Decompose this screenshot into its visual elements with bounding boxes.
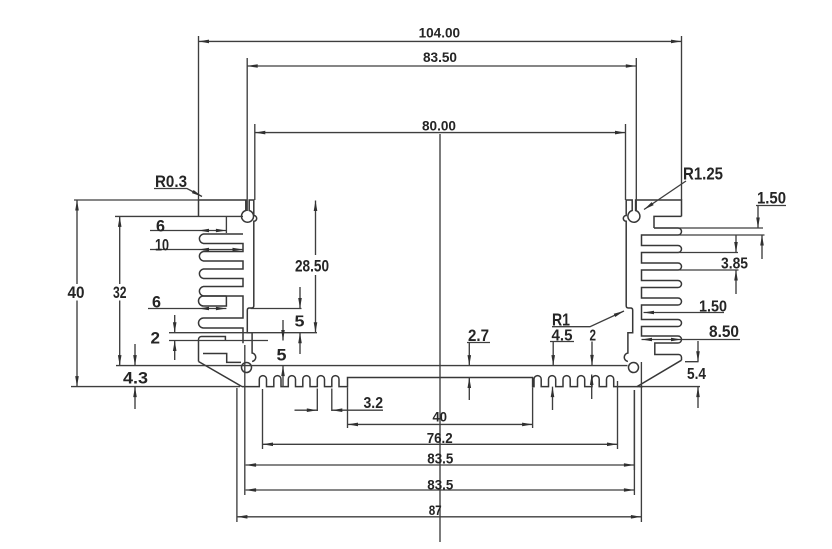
svg-text:8.50: 8.50 — [709, 323, 739, 341]
svg-text:76.2: 76.2 — [427, 430, 453, 447]
dim 83.50 — [247, 49, 636, 211]
svg-text:10: 10 — [155, 236, 169, 255]
dim 3.85 — [678, 235, 748, 294]
svg-text:6: 6 — [152, 294, 161, 312]
svg-text:R1.25: R1.25 — [683, 164, 723, 184]
svg-text:40: 40 — [433, 410, 448, 425]
dim 1.50 top right — [654, 190, 786, 260]
dim 32 left — [113, 216, 127, 365]
dim 6 upper left — [150, 216, 226, 235]
right top notch — [654, 216, 682, 228]
left bottom chamfer — [199, 362, 243, 387]
dim 5 upper (inner wall step) — [251, 287, 305, 354]
svg-text:3.85: 3.85 — [721, 256, 748, 273]
dim 2 right — [590, 328, 597, 400]
left screw boss bottom circle — [242, 363, 252, 373]
dim 2.7 center — [467, 327, 490, 400]
svg-text:80.00: 80.00 — [422, 118, 456, 134]
svg-text:5: 5 — [277, 347, 287, 365]
label R1.25 with leader — [643, 164, 723, 211]
center line — [439, 134, 441, 542]
dim 40 bottom — [348, 388, 533, 429]
svg-text:1.50: 1.50 — [757, 190, 786, 208]
dim 4.3 — [123, 344, 148, 409]
dim 28.50 — [295, 201, 329, 333]
dim 76.2 — [263, 381, 618, 449]
svg-text:R0.3: R0.3 — [155, 172, 187, 191]
svg-text:83.5: 83.5 — [427, 476, 453, 492]
left short floating fin (row 5) — [199, 296, 227, 306]
svg-text:5: 5 — [295, 314, 305, 331]
svg-text:87: 87 — [429, 502, 442, 518]
dim 87 — [237, 362, 642, 522]
svg-text:1.50: 1.50 — [699, 299, 727, 316]
dim 8.50 — [642, 323, 741, 341]
dim 6 lower left — [148, 294, 226, 312]
left wall top block bottom edge + 32 extension — [115, 215, 243, 217]
base bottom outline with comb slots — [242, 376, 643, 387]
right fin bank — [642, 228, 682, 360]
dim 83.5 lower — [245, 390, 635, 495]
svg-text:2.7: 2.7 — [468, 327, 489, 345]
dim 10 left — [150, 236, 243, 255]
dim 1.50 right middle — [644, 299, 728, 316]
dim 4.5 — [550, 328, 574, 411]
svg-text:104.00: 104.00 — [419, 25, 461, 41]
dim 80.00 — [255, 118, 626, 201]
label R0.3 with leader — [154, 172, 203, 198]
left fin bank — [199, 234, 243, 343]
dim 5 lower — [277, 320, 287, 387]
base inner top surface — [116, 365, 628, 367]
svg-text:5.4: 5.4 — [687, 366, 706, 383]
svg-text:3.2: 3.2 — [364, 395, 384, 412]
svg-text:40: 40 — [68, 283, 85, 302]
svg-text:32: 32 — [113, 283, 127, 302]
label R1 with leader — [552, 309, 625, 329]
dim 2 left — [151, 315, 318, 360]
right screw boss bottom circle — [629, 363, 639, 373]
svg-text:4.5: 4.5 — [552, 328, 573, 345]
right bottom chamfer — [637, 360, 682, 386]
svg-text:83.5: 83.5 — [427, 451, 453, 467]
profile: left wall outline — [199, 200, 257, 362]
svg-text:6: 6 — [156, 218, 165, 236]
svg-text:28.50: 28.50 — [295, 257, 329, 276]
left last thick fin with stepped top — [199, 337, 242, 363]
dim 104.00 — [199, 25, 682, 200]
svg-text:R1: R1 — [552, 310, 570, 330]
dim 40 left — [68, 200, 241, 387]
svg-text:2: 2 — [151, 329, 161, 348]
profile: right wall outline — [623, 200, 681, 362]
svg-text:2: 2 — [590, 328, 597, 345]
dim 83.5 upper — [245, 345, 635, 470]
dim 5.4 — [639, 341, 706, 408]
dim 3.2 — [295, 389, 384, 413]
svg-text:83.50: 83.50 — [423, 49, 457, 65]
svg-text:4.3: 4.3 — [123, 369, 148, 388]
